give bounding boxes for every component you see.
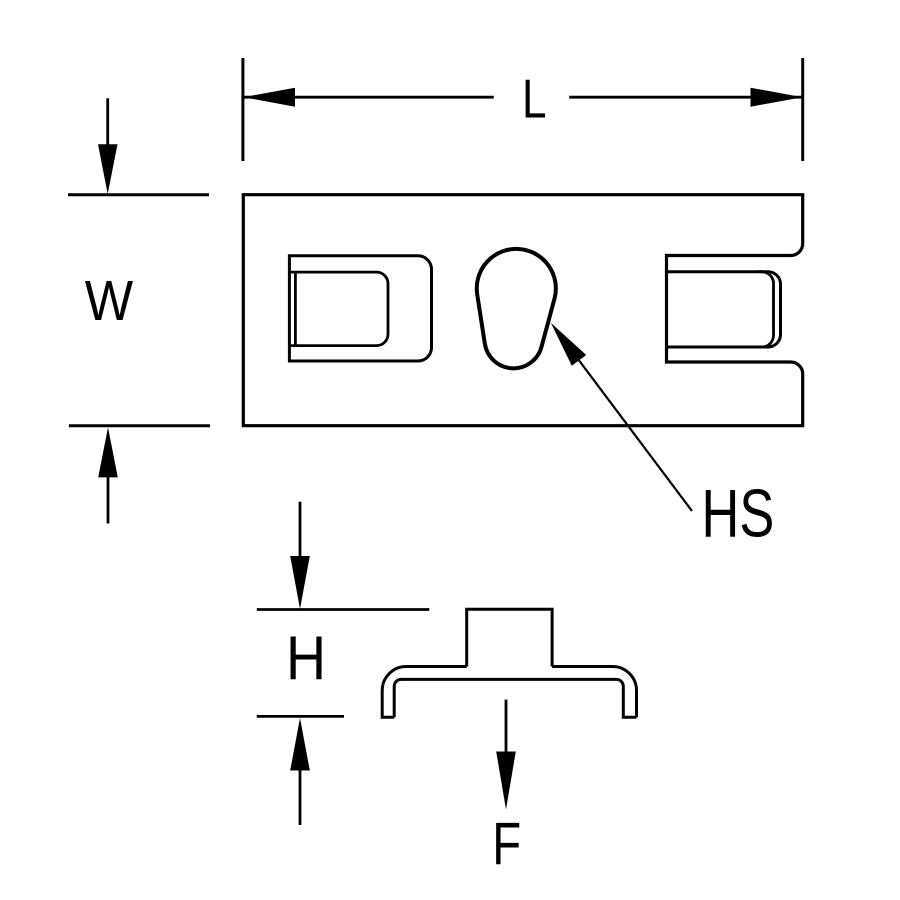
- svg-text:HS: HS: [702, 475, 775, 551]
- force F arrowhead: [496, 752, 516, 810]
- left slot bend line: [294, 272, 297, 346]
- dimension H arrow bottom shaft: [299, 768, 302, 825]
- flange outer left: [382, 667, 467, 718]
- post (side view stud): [467, 609, 552, 666]
- dimension L extension line left: [241, 58, 244, 161]
- dimension W arrow top shaft: [106, 98, 109, 146]
- svg-text:F: F: [492, 811, 521, 878]
- dimension W arrowhead top: [98, 144, 118, 194]
- svg-text:L: L: [522, 68, 547, 130]
- dimension H reference line top: [257, 608, 430, 611]
- dimension W reference line bottom: [69, 424, 210, 427]
- right slot outer contour: [667, 272, 781, 347]
- svg-text:W: W: [85, 270, 134, 333]
- left slot inner contour: [290, 272, 388, 346]
- dimension H arrow top shaft: [299, 502, 302, 558]
- dimension H arrowhead top: [290, 556, 310, 609]
- dimension L arrowhead left: [243, 88, 295, 107]
- left slot outer contour: [289, 256, 431, 361]
- leader line to hole: [579, 360, 692, 511]
- dimension H arrowhead bottom: [290, 718, 310, 771]
- dimension W reference line top: [68, 193, 209, 196]
- dimension W arrowhead bottom: [98, 427, 118, 477]
- svg-text:H: H: [286, 622, 326, 693]
- dimension L line left segment: [243, 96, 493, 99]
- leader arrowhead: [551, 323, 586, 366]
- hole HS (teardrop): [477, 249, 556, 368]
- dimension L arrowhead right: [751, 88, 803, 107]
- flange outer right: [552, 667, 636, 718]
- force F arrow shaft: [505, 700, 508, 753]
- dimension L extension line right: [801, 58, 804, 161]
- dimension H reference line bottom: [257, 715, 344, 718]
- dimension L line right segment: [569, 96, 802, 99]
- body outline (top view of clip): [243, 195, 802, 426]
- dimension W arrow bottom shaft: [107, 476, 110, 524]
- flange inner profile: [394, 679, 636, 717]
- right slot bend curve: [758, 272, 774, 347]
